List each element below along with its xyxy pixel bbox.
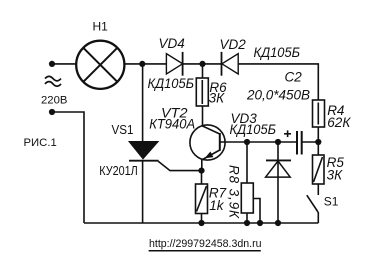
svg-text:VD2: VD2 (220, 37, 247, 52)
wire: R6 to transistor collector (202, 106, 204, 126)
wire: node D to R7 (201, 171, 203, 184)
wire: node B to R6 (202, 64, 204, 78)
svg-text:КД105Б: КД105Б (230, 122, 277, 137)
svg-text:VS1: VS1 (112, 123, 134, 137)
wire: node C to R5 (317, 142, 319, 155)
svg-text:220В: 220В (41, 94, 67, 106)
diode VD4 (166, 52, 182, 76)
label КД105Б (VD2) (254, 45, 301, 60)
diode VD3 (266, 142, 291, 223)
wire: VD4 to node B (183, 63, 203, 65)
node: VD3/bus junction (275, 220, 281, 226)
svg-text:R8 3,9К: R8 3,9К (227, 165, 242, 219)
label R8 3,9К (rotated) (227, 165, 242, 219)
node C: R4/C2/R5 junction (315, 139, 321, 145)
capacitor C2 (297, 131, 318, 155)
svg-text:VD4: VD4 (159, 36, 185, 51)
label 1k (209, 198, 225, 213)
switch S1 (307, 195, 319, 223)
wire: node B to VD2 (203, 63, 222, 65)
svg-text:C2: C2 (285, 70, 303, 85)
label VD3 (231, 111, 258, 126)
label VD2 (220, 37, 247, 52)
label VS1 (112, 123, 134, 137)
node: R8/bus junction (244, 220, 250, 226)
label R5 (327, 155, 345, 170)
transistor VT2 (190, 125, 225, 160)
svg-text:H1: H1 (93, 20, 109, 34)
label КД105Б (VD3) (230, 122, 277, 137)
AC symbol ~ (45, 76, 61, 86)
node D: emitter/gate/R7 junction (198, 168, 204, 174)
lamp H1 (76, 41, 124, 89)
svg-text:62К: 62К (327, 115, 351, 130)
resistor R7 (196, 184, 208, 214)
svg-text:20,0*450В: 20,0*450В (246, 87, 310, 102)
label C2 (285, 70, 303, 85)
thyristor VS1 (129, 64, 201, 223)
URL caption (149, 238, 262, 251)
svg-text:РИС.1: РИС.1 (24, 137, 57, 149)
label R4 (327, 103, 344, 118)
svg-text:3К: 3К (327, 168, 344, 183)
wire: transistor emitter to node D (201, 160, 203, 171)
label R6 (209, 80, 227, 95)
node A: lamp/VD4/VS1 junction (139, 61, 145, 67)
wire: node A to VD4 (142, 63, 166, 65)
svg-text:http://299792458.3dn.ru: http://299792458.3dn.ru (149, 238, 262, 250)
wire: VD2 to right rail corner (238, 64, 318, 100)
wire: lamp to node A (124, 63, 142, 65)
node: AC top terminal (49, 61, 55, 67)
resistor R8 (241, 183, 260, 223)
node E: R8 junction (244, 139, 250, 145)
wire: AC top terminal to lamp (52, 63, 77, 65)
wire: AC bottom terminal to bottom bus (52, 112, 84, 223)
wire: base line from VT2 to C2 (220, 141, 297, 143)
wire: R7 to bus (201, 214, 203, 224)
label S1 (324, 194, 339, 208)
svg-text:1k: 1k (209, 198, 225, 213)
label 220В (41, 94, 67, 106)
label 62К (327, 115, 351, 130)
wire: R5 to switch (317, 184, 319, 195)
label 3К (R6) (209, 90, 226, 105)
label КТ940А (149, 117, 195, 132)
wire: bottom bus (84, 222, 318, 224)
svg-text:КД105Б: КД105Б (254, 45, 301, 60)
resistor R4 (313, 100, 325, 127)
label КД105Б (VD4) (148, 76, 195, 91)
node: R7/bus junction (198, 220, 204, 226)
label КУ201Л (99, 163, 138, 178)
label + (C2 polarity) (284, 130, 291, 137)
resistor R6 (196, 78, 208, 106)
svg-text:3К: 3К (209, 90, 226, 105)
wire: R8 to bus (246, 213, 248, 223)
label VT2 (161, 106, 188, 121)
node B: VD4/R6/VD2 junction (199, 61, 205, 67)
resistor R5 (313, 155, 325, 184)
svg-text:КУ201Л: КУ201Л (99, 163, 138, 178)
wire: R4 to node C (317, 127, 319, 142)
node F: VD3 junction (275, 139, 281, 145)
svg-text:S1: S1 (324, 194, 339, 208)
label 3К (R5) (327, 168, 344, 183)
label H1 (93, 20, 109, 34)
node: AC bottom terminal (49, 109, 55, 115)
diode VD2 (222, 52, 239, 76)
label R7 (209, 186, 227, 201)
wire: node E to R8 (246, 142, 248, 183)
svg-text:КТ940А: КТ940А (149, 117, 195, 132)
label VD4 (159, 36, 185, 51)
node: R8 tap/bus junction (257, 220, 263, 226)
label 20,0*450В (246, 87, 310, 102)
svg-text:КД105Б: КД105Б (148, 76, 195, 91)
label РИС.1 (24, 137, 57, 149)
